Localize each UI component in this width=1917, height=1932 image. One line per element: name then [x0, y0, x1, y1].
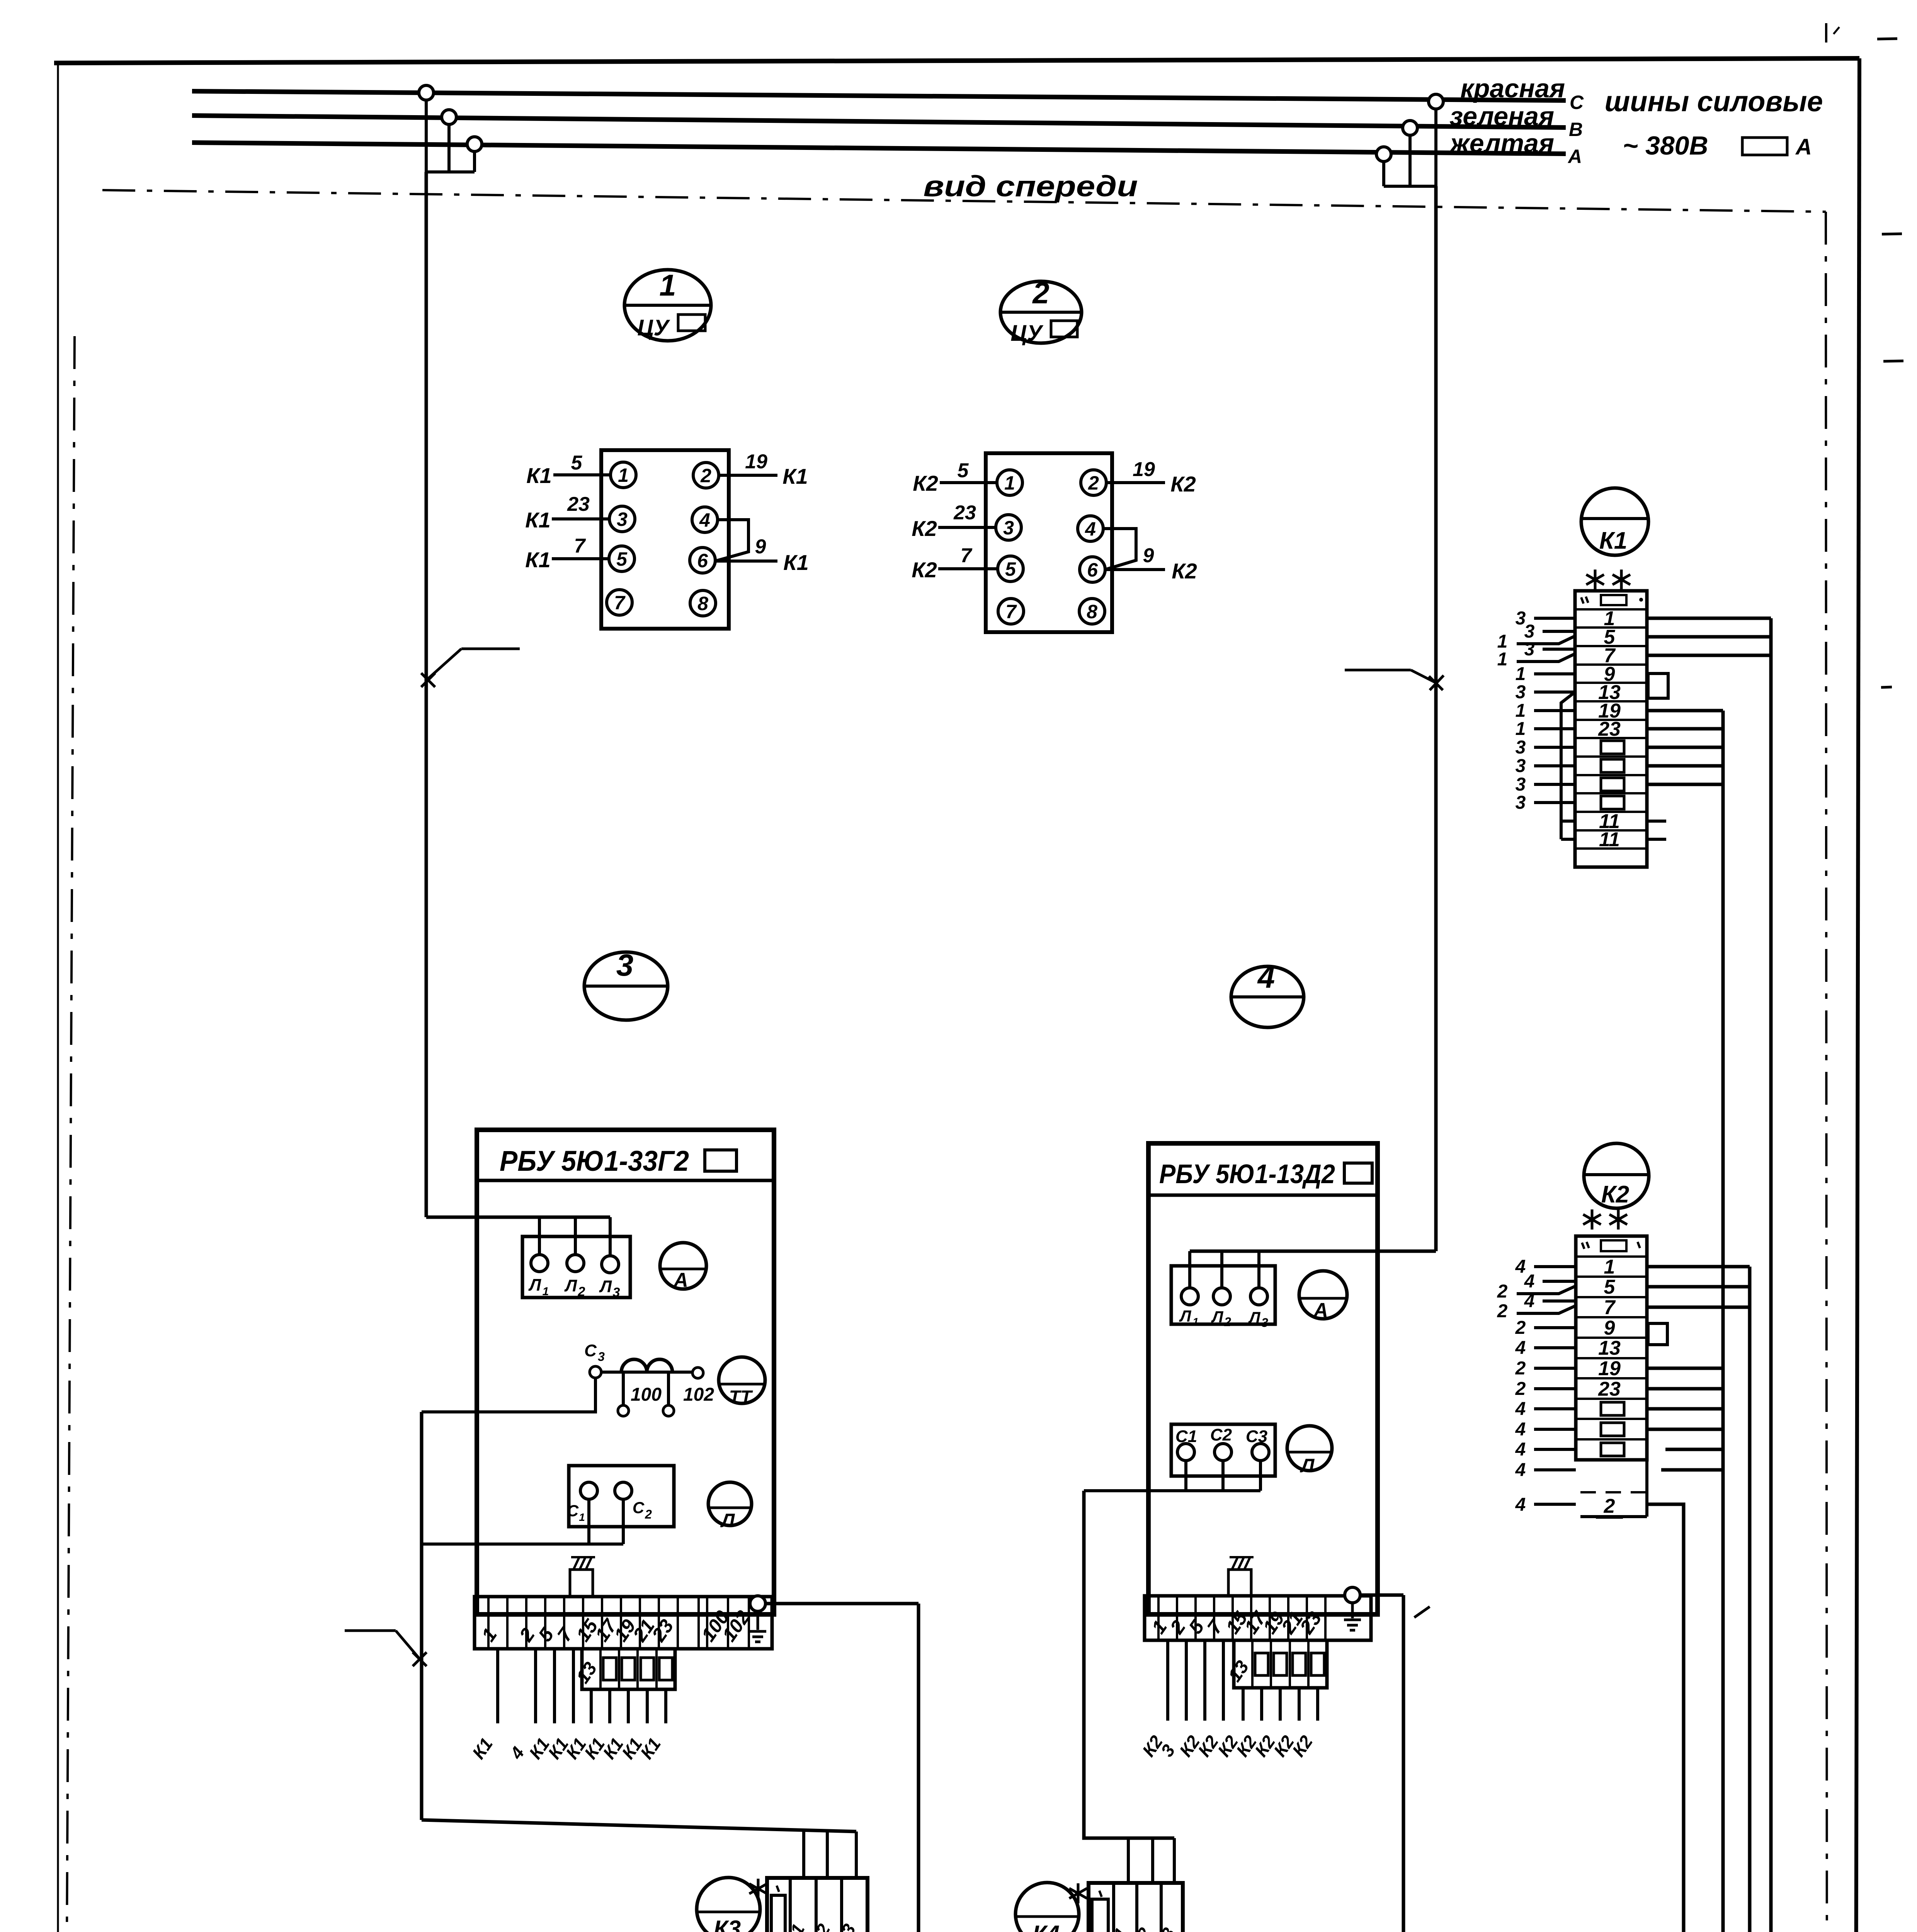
wire РБУ2 out 3: [1185, 1640, 1188, 1721]
ТТ end terminal: [692, 1367, 703, 1378]
РБУ1 terminal С1: [580, 1482, 597, 1499]
svg-text:шины силовые: шины силовые: [1604, 85, 1823, 117]
wire vertical 4583 (to соед.коробка): [1769, 618, 1773, 1932]
svg-text:23: 23: [1598, 718, 1621, 740]
wire РБУ1 out К1: [572, 1649, 575, 1723]
svg-text:5: 5: [571, 452, 583, 474]
РБУ1 lamp Л: [708, 1482, 752, 1526]
wire drops to Л1Л2Л3 (РБУ2): [1188, 1251, 1191, 1288]
svg-text:3: 3: [1516, 756, 1526, 776]
svg-text:К2: К2: [1288, 1731, 1317, 1760]
svg-text:С: С: [584, 1341, 597, 1360]
svg-text:К1: К1: [525, 548, 551, 572]
svg-text:К3: К3: [714, 1916, 741, 1932]
svg-text:2: 2: [645, 1507, 652, 1521]
wire К1 row5 out: [1647, 635, 1771, 639]
wire К2 row entry 5: [1534, 1346, 1576, 1349]
РБУ1 terminal С2: [615, 1482, 632, 1499]
wire left junction drops: [425, 93, 428, 172]
РБУ2 terminal С2: [1214, 1444, 1232, 1461]
svg-text:Л: Л: [1179, 1307, 1192, 1325]
wire feeder left (to РБУ1): [425, 172, 428, 1217]
К1 row jumper box: [1601, 796, 1624, 809]
svg-text:красная: красная: [1460, 74, 1565, 103]
svg-text:~ 380В: ~ 380В: [1623, 131, 1708, 160]
svg-text:9: 9: [1143, 544, 1154, 567]
bus B (зеленая): [192, 116, 1566, 128]
sheet frame left border: [57, 63, 59, 1932]
РБУ1 header line: [477, 1179, 774, 1182]
bus C (красная): [192, 91, 1566, 100]
wire К2 row entry 8: [1534, 1407, 1576, 1410]
wire К2 row2 out and vertical 4357: [1537, 1504, 1684, 1932]
wire РБУ1 feeder left vertical: [420, 1412, 424, 1820]
РБУ1 ground node: [750, 1596, 765, 1611]
ТТ secondary drops: [622, 1372, 625, 1405]
wire К1 row entry 11: [1534, 801, 1575, 804]
svg-text:6: 6: [1087, 559, 1098, 581]
svg-text:К1: К1: [525, 508, 551, 532]
РБУ2 terminal С3: [1252, 1444, 1269, 1461]
svg-text:1: 1: [1516, 701, 1526, 721]
svg-text:23: 23: [567, 493, 590, 515]
svg-text:4: 4: [1515, 1419, 1526, 1440]
wire РБУ1 out К1: [646, 1689, 649, 1723]
svg-text:3: 3: [1516, 682, 1526, 702]
svg-text:Л: Л: [720, 1510, 735, 1531]
wire XT1 pin2 lead: [719, 474, 777, 477]
svg-text:С: С: [1570, 92, 1584, 113]
svg-text:С: С: [633, 1498, 645, 1517]
wire РБУ2 out К2: [1260, 1688, 1263, 1721]
wire К2 row7 out: [1647, 1306, 1750, 1309]
демонтировать mark РБУ1: [570, 1570, 593, 1596]
svg-text:3: 3: [1157, 1741, 1179, 1760]
svg-text:2: 2: [1497, 1281, 1508, 1302]
wire С1С2 exit: [422, 1543, 623, 1546]
svg-text:11: 11: [1599, 828, 1620, 851]
svg-text:вид спереди: вид спереди: [924, 170, 1138, 203]
XT2 pin 7: [998, 599, 1024, 624]
svg-text:4: 4: [1085, 518, 1096, 540]
wire К2 row7 entry: [1543, 1299, 1576, 1303]
wire РБУ1 out К1: [608, 1689, 611, 1723]
svg-text:К1: К1: [468, 1734, 497, 1763]
svg-text:ЦУ: ЦУ: [1010, 321, 1043, 346]
svg-text:2: 2: [1088, 472, 1099, 494]
svg-text:8: 8: [1087, 601, 1097, 622]
svg-text:1: 1: [1604, 1256, 1615, 1278]
svg-text:1: 1: [659, 268, 676, 302]
balloon 3: [584, 952, 668, 1020]
svg-text:3: 3: [613, 1285, 620, 1300]
svg-text:К2: К2: [912, 558, 937, 582]
wire К1 row entry 9: [1534, 764, 1575, 767]
XT2 pin 1: [997, 470, 1022, 495]
svg-text:1: 1: [618, 464, 629, 486]
svg-text:2: 2: [1515, 1358, 1526, 1379]
wire XT2 pin6 lead: [1105, 568, 1165, 571]
С2 drop: [622, 1499, 625, 1544]
wire XT2 pin1 lead: [940, 481, 997, 484]
svg-text:23: 23: [1598, 1378, 1621, 1400]
РБУ2 sub strip jumper: [1274, 1653, 1287, 1675]
svg-text:4: 4: [1515, 1338, 1526, 1358]
leader to feeder wire right: [1345, 669, 1411, 672]
svg-text:Л: Л: [1211, 1308, 1224, 1326]
РБУ1 sub strip jumper: [603, 1658, 616, 1680]
wire XT1 pin5 lead: [552, 557, 609, 560]
wire XT1 jumper pins 4-6: [715, 520, 748, 561]
wire С3 down-left exit: [422, 1378, 595, 1412]
svg-text:зеленая: зеленая: [1449, 102, 1554, 131]
РБУ1 bottom strip: [475, 1597, 772, 1649]
panel boundary left (chain line): [66, 336, 75, 1932]
svg-text:9: 9: [1604, 1317, 1615, 1339]
wire К1 row entry 10: [1534, 783, 1575, 786]
svg-text:С2: С2: [1127, 1924, 1155, 1932]
wire С1С2С3 exit left: [1084, 1489, 1260, 1492]
wire К2 row5 entry: [1543, 1280, 1576, 1283]
node on bus C right: [1429, 94, 1443, 109]
svg-text:К2: К2: [1172, 559, 1197, 583]
svg-text:9: 9: [755, 536, 766, 558]
РБУ2 input box Л1Л2Л3: [1171, 1266, 1275, 1324]
svg-text:8: 8: [697, 593, 708, 614]
balloon К1: [1581, 488, 1648, 555]
svg-text:РБУ 5Ю1-13Д2: РБУ 5Ю1-13Д2: [1159, 1159, 1335, 1189]
svg-text:4: 4: [1524, 1271, 1535, 1292]
svg-text:100: 100: [631, 1384, 662, 1405]
wire К1 row19 out: [1647, 709, 1723, 713]
РБУ1 sub strip jumper: [641, 1658, 654, 1680]
terminal block XT1: [601, 450, 729, 629]
svg-text:Л: Л: [564, 1276, 577, 1295]
wire РБУ1 out К1: [553, 1649, 556, 1723]
wire РБУ1 out К1: [590, 1689, 593, 1723]
svg-text:5: 5: [1005, 558, 1016, 580]
wire XT2 pin3 lead: [938, 526, 996, 529]
РБУ2 bottom strip: [1145, 1596, 1371, 1640]
corner tick top right: [1825, 23, 1827, 43]
wire К1 row5 long entry: [1517, 636, 1575, 644]
svg-text:К1: К1: [1599, 527, 1628, 554]
terminal block XT2: [986, 453, 1112, 632]
svg-text:4: 4: [1515, 1495, 1526, 1515]
К4 switch rect: [1092, 1899, 1108, 1932]
К1 row jumper box: [1601, 759, 1624, 772]
balloon 2 (ЦУ): [1000, 281, 1082, 343]
svg-text:13: 13: [573, 1658, 601, 1687]
leader to feeder wire left: [461, 648, 520, 650]
sheet frame right border: [1855, 58, 1859, 1932]
РБУ1 terminal Л3: [602, 1256, 619, 1273]
wire РБУ2 node to bus drop: [1360, 1594, 1403, 1597]
wire РБУ2 supply horizontal: [1190, 1250, 1436, 1253]
РБУ1 sub strip jumper: [622, 1658, 635, 1680]
svg-text:1: 1: [543, 1285, 549, 1298]
svg-text:К2: К2: [1601, 1181, 1630, 1208]
connector К1 strip: [1575, 591, 1647, 867]
svg-text:3: 3: [1003, 517, 1014, 539]
XT1 pin 2: [693, 463, 719, 488]
svg-text:7: 7: [961, 544, 973, 567]
svg-text:Л: Л: [1248, 1308, 1261, 1327]
wire РБУ1 out К1: [496, 1649, 499, 1723]
svg-text:К2: К2: [1170, 472, 1196, 496]
wire К2 row5 out: [1647, 1285, 1750, 1289]
wire К1 row11 stubs: [1647, 820, 1666, 823]
svg-text:К1: К1: [636, 1734, 665, 1763]
svg-text:2: 2: [1604, 1495, 1615, 1517]
svg-text:С3: С3: [1151, 1924, 1179, 1932]
svg-text:13: 13: [1225, 1657, 1253, 1685]
svg-text:4: 4: [1257, 960, 1275, 994]
device РБУ1 box: [477, 1130, 774, 1614]
sheet frame top border: [54, 58, 1859, 63]
svg-text:А: А: [1567, 146, 1582, 167]
svg-text:К1: К1: [782, 464, 808, 488]
svg-text:1: 1: [1516, 719, 1526, 739]
wire vertical 4459 (to релейный щит): [1589, 711, 1723, 1932]
wire feeder right (to РБУ2): [1434, 186, 1438, 1251]
svg-text:С3: С3: [831, 1920, 860, 1932]
wire К1 left bracket: [1561, 692, 1575, 821]
asterisks К1: [1594, 570, 1597, 590]
svg-text:2: 2: [1515, 1379, 1526, 1399]
wire К2 row entry 6: [1534, 1367, 1576, 1370]
wire К1 row7 entry: [1543, 648, 1575, 651]
svg-text:2: 2: [1032, 276, 1049, 310]
wire right junction drops: [1434, 102, 1437, 186]
svg-text:2: 2: [1515, 1318, 1526, 1338]
wire РБУ2 out К2: [1316, 1688, 1319, 1721]
XT1 pin 4: [692, 507, 718, 532]
wire К2 row entry 11: [1534, 1468, 1576, 1471]
balloon К2: [1584, 1143, 1649, 1208]
capacitor block К4: [1089, 1883, 1183, 1932]
К2 faded jumper box: [1601, 1443, 1624, 1456]
svg-text:К1: К1: [783, 550, 809, 575]
svg-text:С: С: [567, 1502, 579, 1520]
svg-text:ТТ: ТТ: [729, 1387, 753, 1408]
svg-text:6: 6: [697, 550, 708, 571]
svg-text:С2: С2: [1210, 1425, 1232, 1444]
К2 row13 side box: [1648, 1323, 1667, 1345]
ampere box: [1742, 138, 1787, 155]
wire РБУ2 out К2: [1298, 1688, 1301, 1721]
XT1 pin 1: [611, 462, 636, 488]
wire К1 row23 out: [1647, 727, 1723, 731]
svg-text:3: 3: [598, 1350, 605, 1364]
РБУ2 ground node: [1345, 1587, 1360, 1603]
svg-text:7: 7: [1604, 1296, 1616, 1319]
wire РБУ2 out К2: [1166, 1640, 1169, 1721]
wire К2 row entry 7: [1534, 1387, 1576, 1390]
wire РБУ2 out К2: [1203, 1640, 1206, 1721]
svg-text:А: А: [673, 1269, 688, 1291]
wire XT2 pin2 lead: [1106, 481, 1165, 484]
svg-text:7: 7: [574, 535, 586, 557]
balloon К3: [697, 1878, 760, 1932]
svg-text:102: 102: [683, 1384, 714, 1405]
wire РБУ2 out К2: [1222, 1640, 1225, 1721]
svg-text:3: 3: [1524, 639, 1535, 660]
XT2 pin 4: [1078, 516, 1103, 541]
wire К1 row1 entry: [1534, 617, 1575, 620]
panel boundary top (chain line): [102, 190, 1826, 212]
svg-text:3: 3: [1261, 1316, 1268, 1330]
К3 switch rect: [771, 1895, 785, 1932]
wire РБУ2 capacitor feeder: [1084, 1491, 1174, 1838]
wire XT1 pin3 lead: [552, 517, 609, 520]
wire РБУ2 out К2: [1242, 1688, 1245, 1721]
XT1 pin 8: [690, 590, 716, 616]
device РБУ2 box: [1148, 1143, 1378, 1614]
РБУ1 ammeter А: [660, 1243, 706, 1289]
К2 strip faded bottom / row 2: [1645, 1460, 1648, 1517]
svg-text:4: 4: [1515, 1399, 1526, 1419]
XT2 pin 6: [1080, 557, 1105, 582]
svg-text:РБУ 5Ю1-33Г2: РБУ 5Ю1-33Г2: [500, 1145, 689, 1177]
balloon К4: [1015, 1883, 1079, 1932]
РБУ2 terminal С1: [1177, 1444, 1194, 1461]
svg-text:4: 4: [1515, 1460, 1526, 1480]
svg-text:13: 13: [1598, 1337, 1621, 1359]
svg-text:19: 19: [1598, 1357, 1621, 1380]
asterisk К3 a: [757, 1879, 760, 1899]
РБУ2 sub strip jumper: [1255, 1653, 1268, 1675]
wire К1 row1 to вертикаль 4583: [1647, 617, 1771, 620]
wire РБУ1 out К1: [627, 1689, 630, 1723]
wire РБУ1 out К1: [664, 1689, 667, 1723]
wire XT1 pin6 lead: [715, 560, 777, 563]
wire С drops РБУ2: [1184, 1461, 1187, 1491]
wire К3 drops: [802, 1830, 805, 1878]
svg-text:2: 2: [700, 465, 711, 486]
svg-text:К1: К1: [526, 463, 552, 488]
svg-text:3: 3: [1516, 737, 1526, 758]
svg-text:К4: К4: [1032, 1921, 1060, 1932]
svg-text:7: 7: [614, 592, 626, 614]
К1 row13 side box: [1648, 673, 1668, 698]
wire XT2 pin5 lead: [938, 567, 998, 570]
РБУ1 header box: [705, 1150, 737, 1171]
wire К2 row19 out: [1647, 1367, 1723, 1370]
РБУ2 header line: [1148, 1194, 1378, 1197]
РБУ2 sub strip: [1234, 1640, 1327, 1688]
svg-text:19: 19: [745, 451, 767, 473]
wire К2 row entry 9: [1534, 1428, 1576, 1431]
wire К2 row entry 4: [1534, 1326, 1576, 1329]
svg-text:А: А: [1313, 1299, 1328, 1321]
svg-text:2: 2: [578, 1284, 585, 1299]
svg-text:3: 3: [1516, 793, 1526, 813]
svg-text:А: А: [1795, 134, 1812, 160]
wire К2 jumper rows out: [1647, 1407, 1723, 1411]
panel boundary right (chain line): [1826, 212, 1827, 1932]
wire XT1 pin1 lead: [553, 473, 611, 476]
XT1 pin 3: [609, 506, 635, 532]
svg-text:Л: Л: [599, 1277, 612, 1296]
РБУ2 header box: [1344, 1163, 1372, 1183]
svg-text:В: В: [1569, 119, 1583, 140]
wire РБУ1 supply horizontal: [426, 1216, 610, 1219]
asterisk К4 a: [1077, 1883, 1080, 1903]
wire К2 row1 entry: [1534, 1265, 1576, 1268]
svg-text:К2: К2: [912, 516, 937, 541]
svg-text:1: 1: [1516, 664, 1526, 684]
svg-text:Л: Л: [1300, 1455, 1315, 1476]
connector К2 strip: [1576, 1236, 1647, 1460]
РБУ2 box С1С2С3: [1171, 1424, 1275, 1476]
svg-text:С2: С2: [806, 1920, 834, 1932]
РБУ1 input box Л1Л2Л3: [522, 1236, 630, 1298]
К1 row jumper box: [1601, 778, 1624, 791]
XT2 pin 5: [998, 556, 1023, 582]
К1 strip top-row marks: [1581, 597, 1584, 604]
К2 row jumper box: [1601, 1423, 1624, 1436]
wire РБУ1 out 4: [534, 1649, 537, 1723]
svg-text:желтая: желтая: [1449, 129, 1554, 158]
wire К3 feeder horizontal: [422, 1820, 856, 1832]
XT1 pin 6: [690, 548, 715, 573]
wire vertical 4528 (to соед.коробка 2): [1684, 1267, 1750, 1932]
leader РБУ2: [1414, 1607, 1430, 1617]
leader РБУ1 lower: [345, 1629, 396, 1632]
XT1 pin 7: [607, 590, 632, 615]
svg-text:1: 1: [1192, 1316, 1199, 1328]
К2 strip top-row marks: [1582, 1243, 1584, 1249]
svg-text:2: 2: [1224, 1315, 1231, 1329]
wire К4 drops: [1127, 1838, 1130, 1883]
К2 row jumper box: [1601, 1402, 1624, 1415]
wire К2 row entry 10: [1534, 1448, 1576, 1451]
svg-text:5: 5: [958, 459, 969, 482]
svg-text:4: 4: [699, 509, 710, 531]
ТТ coil bumps: [621, 1359, 672, 1372]
capacitor block К3: [767, 1878, 867, 1932]
wire К2 row7 long entry: [1517, 1306, 1576, 1313]
XT2 pin 2: [1081, 470, 1106, 495]
wire К2 row5 long entry: [1517, 1286, 1576, 1294]
К1 row jumper box: [1601, 741, 1624, 754]
svg-text:3: 3: [1516, 774, 1526, 795]
wire XT2 jumper pins 4-6: [1103, 529, 1136, 570]
svg-text:19: 19: [1133, 458, 1155, 481]
РБУ2 terminal Л3: [1250, 1288, 1267, 1305]
РБУ1 sub strip jumper: [659, 1658, 672, 1680]
РБУ1 terminal Л2: [567, 1255, 584, 1272]
wire К1 row entry 6: [1534, 709, 1575, 712]
XT1 pin 5: [609, 546, 634, 571]
asterisks К2: [1591, 1209, 1594, 1230]
svg-text:23: 23: [953, 502, 976, 524]
демонтировать mark РБУ2: [1228, 1570, 1251, 1596]
wire К1 jumper rows out: [1647, 746, 1723, 749]
wire К1 row7 out: [1647, 654, 1771, 657]
РБУ1 current transformer С3 terminal: [590, 1366, 601, 1378]
svg-text:7: 7: [1005, 601, 1017, 622]
wire ТТ primary: [601, 1371, 694, 1374]
wire К1 row9 entry: [1534, 672, 1575, 675]
svg-text:5: 5: [616, 548, 628, 570]
svg-text:5: 5: [1604, 1276, 1616, 1298]
svg-text:Л: Л: [528, 1276, 541, 1294]
fold marks right edge: [1877, 39, 1897, 39]
РБУ2 terminal Л1: [1181, 1288, 1198, 1305]
РБУ1 sub strip: [582, 1649, 675, 1689]
